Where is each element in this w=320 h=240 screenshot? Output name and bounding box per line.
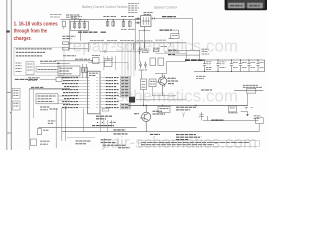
wire y99.8 xyxy=(136,99,186,101)
wire xyxy=(40,78,56,80)
svg-text:charger.: charger. xyxy=(14,36,32,42)
sub box 2 xyxy=(26,62,34,75)
page edge dark tick xyxy=(6,30,9,32)
resistor network RN1 xyxy=(141,79,147,90)
arrow label row xyxy=(40,60,56,62)
popup button 1 xyxy=(228,3,244,9)
bottom text clusters center xyxy=(76,140,131,148)
net label row2 xyxy=(168,54,175,56)
capacitors C4 C5 xyxy=(122,20,131,28)
op-amp U2 xyxy=(141,16,151,27)
arrow down from box xyxy=(241,111,248,113)
verticals below IC xyxy=(100,114,111,132)
label row under B1 xyxy=(78,31,98,33)
resistors R9 R10 xyxy=(82,64,88,78)
wire drop from B1 xyxy=(79,30,81,40)
wire y53.6 xyxy=(156,53,187,55)
notes box outline xyxy=(14,47,64,75)
U2 internal elements xyxy=(142,17,151,25)
bus tick stubs xyxy=(95,43,171,46)
verticals right xyxy=(61,108,63,141)
wire U2 bottom horizontal xyxy=(139,29,151,31)
wires right from box xyxy=(58,96,70,103)
wire row2 xyxy=(175,54,200,56)
capacitors C6 C7 xyxy=(139,62,147,69)
verticals right cluster xyxy=(199,51,201,61)
wire y95.8 xyxy=(152,95,176,97)
cluster below xyxy=(40,107,50,110)
page edge rung mid xyxy=(7,92,12,93)
wire main top xyxy=(61,19,141,21)
wire stub xyxy=(63,27,65,29)
resistors R7a R7b xyxy=(143,50,159,53)
net label left xyxy=(201,89,212,91)
junction dot U2 bottom xyxy=(144,30,145,31)
output wire with ticks xyxy=(151,17,193,19)
cap bank bottom bus xyxy=(194,71,265,73)
notes text block top right xyxy=(128,4,139,13)
horizontal bus y42.8 xyxy=(88,42,186,44)
label R20 value xyxy=(63,78,70,81)
labels cluster right xyxy=(121,17,135,30)
line y137.6 xyxy=(67,137,95,139)
left small boxes xyxy=(12,88,20,98)
transistor Q2 xyxy=(142,112,151,121)
notes text lines xyxy=(16,49,52,56)
cluster below bus right xyxy=(229,106,237,112)
dark net label block xyxy=(129,97,135,103)
resistors R2 R3 R4 in B1 xyxy=(73,20,86,29)
labels above busB right xyxy=(150,134,200,139)
tiny rows far right xyxy=(202,49,210,54)
page edge line right xyxy=(10,0,12,150)
tiny text left-mid xyxy=(63,55,76,57)
IC U1 xyxy=(88,71,101,114)
wire right bus xyxy=(234,90,263,92)
box mid xyxy=(36,94,58,104)
wire rows right xyxy=(168,49,177,51)
small grey text above note xyxy=(50,15,62,17)
junction dots top wire xyxy=(80,19,124,20)
wire y60.8 xyxy=(55,60,92,62)
wire label2 to comp xyxy=(173,29,179,31)
label above wire y60.8 xyxy=(75,58,90,60)
cap bank top bus xyxy=(194,59,265,61)
wire y62.5 xyxy=(88,62,128,64)
below IC label xyxy=(96,116,112,119)
cap bank right edge wire xyxy=(264,60,266,72)
bus A xyxy=(39,126,137,128)
svg-text:through from the: through from the xyxy=(14,29,48,35)
verticals xyxy=(28,89,30,150)
page edge rung low xyxy=(7,133,12,134)
cluster right above IC xyxy=(105,61,113,67)
bus A label xyxy=(92,125,114,127)
sub box 3 xyxy=(36,67,60,73)
open junction circle xyxy=(104,51,106,53)
bus B long xyxy=(62,131,259,133)
label above U2 xyxy=(144,13,154,15)
wire row1 xyxy=(177,50,200,52)
long vertical left of SC xyxy=(134,20,136,71)
filter block B1 xyxy=(71,21,89,30)
svg-text:1. 16-18 volts comes: 1. 16-18 volts comes xyxy=(14,22,58,28)
wire bus left drop xyxy=(87,43,89,52)
label above B1 xyxy=(71,17,82,19)
small ticks cluster xyxy=(245,107,253,109)
Q2 labels xyxy=(134,111,165,114)
resistor R22 under U1 xyxy=(102,108,109,111)
wire stubs bottom text xyxy=(104,138,106,148)
bold A/D label xyxy=(185,59,204,61)
wire left of IC down xyxy=(83,109,85,132)
verticals below resistor boxes xyxy=(143,90,145,106)
label R30 value xyxy=(243,85,262,87)
text below bank xyxy=(196,76,206,78)
box right of bus xyxy=(158,106,170,112)
wire U2 ground drop xyxy=(143,27,145,49)
resistors R5 R6 xyxy=(62,42,88,50)
wire y120.5 xyxy=(203,120,258,122)
labels below bus xyxy=(176,107,196,110)
boxed labels right of IC xyxy=(120,76,131,109)
page edge line left xyxy=(6,0,8,150)
page edge dot xyxy=(10,112,11,113)
net label rows left xyxy=(28,78,40,80)
wire vertical x139 xyxy=(138,30,140,62)
svg-text:Battery Current Control Secti: Battery Current Control Section xyxy=(82,5,128,9)
wire down to bus xyxy=(247,93,249,105)
svg-text:repair-schematics.com: repair-schematics.com xyxy=(67,37,238,56)
IC pin rows xyxy=(62,78,119,108)
sub box 1 xyxy=(16,63,22,71)
cluster right bottom xyxy=(254,116,261,118)
Q1 labels xyxy=(168,78,179,83)
capacitors C0 input plates xyxy=(135,17,141,24)
bus y105.5 xyxy=(128,105,248,107)
resistor R21 xyxy=(31,139,37,146)
resistor R8 xyxy=(171,34,179,39)
resistor R30 xyxy=(247,88,256,93)
resistor R11 xyxy=(150,58,156,66)
resistor R1 xyxy=(62,21,65,27)
bottom text notes xyxy=(15,78,38,80)
svg-text:Speed Control: Speed Control xyxy=(154,6,177,10)
signal label 1 xyxy=(162,16,176,18)
drain wire xyxy=(155,73,167,75)
capacitors C2 C3 xyxy=(106,20,114,27)
capacitor C9 on bus A xyxy=(37,129,41,135)
junction dots bank xyxy=(204,59,259,72)
cluster right of wire xyxy=(93,58,100,64)
signal label 2 xyxy=(160,29,174,31)
wire corner x128 xyxy=(127,63,129,71)
labels above caps xyxy=(103,16,116,18)
popup button 2 xyxy=(247,3,263,9)
annotation note red text xyxy=(14,22,58,42)
resistor R20 xyxy=(56,77,62,81)
popup panel top right xyxy=(225,0,268,10)
wire corner down right xyxy=(192,18,194,50)
Y marks xyxy=(182,113,185,118)
labels above bus xyxy=(90,38,174,46)
bus y88.9 xyxy=(29,88,70,90)
small box left xyxy=(58,66,80,76)
connector circle xyxy=(65,107,67,109)
wire corner into R8 xyxy=(178,30,180,33)
capacitors C10-C15 xyxy=(203,60,260,72)
transistor Q1 xyxy=(159,77,167,85)
text bottom-left of net xyxy=(62,36,75,38)
cap labels xyxy=(206,62,264,70)
capacitor C8 xyxy=(133,43,144,54)
wire to node A with arrow xyxy=(40,62,70,64)
zener diode xyxy=(199,112,208,121)
wire y51.5 xyxy=(100,51,140,53)
resistor R12 xyxy=(158,58,164,66)
verticals dropping to IC label column xyxy=(122,43,134,77)
label above wire xyxy=(66,15,80,17)
